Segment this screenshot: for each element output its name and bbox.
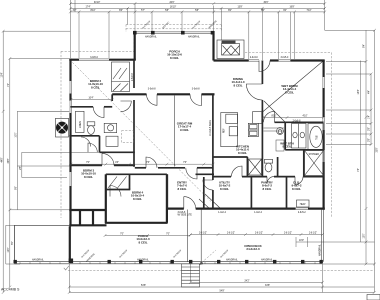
x212.9 door (203, 180, 213, 190)
pantry/clo top wall (213, 176, 231, 178)
svg-text:8 CEIL: 8 CEIL (238, 151, 247, 155)
wall y152 (100, 151, 135, 153)
fireplace (217, 40, 244, 59)
svg-text:8 CEIL: 8 CEIL (220, 187, 229, 191)
master bedroom ceiling diagonal (263, 62, 323, 113)
clo door (295, 177, 303, 185)
svg-text:16'10": 16'10" (170, 7, 177, 9)
right side dims (296, 29, 376, 293)
svg-text:8 CEIL: 8 CEIL (138, 240, 147, 244)
svg-text:8 CEIL: 8 CEIL (292, 187, 301, 191)
svg-text:10-0x6-8 SLDG: 10-0x6-8 SLDG (210, 120, 212, 136)
svg-text:7'0": 7'0" (166, 233, 170, 235)
kitchen west wall (212, 94, 214, 180)
svg-text:3'0": 3'0" (283, 10, 287, 12)
svg-text:8 CEIL: 8 CEIL (177, 187, 186, 191)
svg-text:8'0": 8'0" (12, 241, 14, 245)
wic shelves (264, 128, 285, 151)
svg-text:16'8": 16'8" (289, 7, 294, 9)
svg-text:ACC4MB S: ACC4MB S (1, 288, 20, 292)
bottom-right small box (367, 295, 380, 300)
stairs (182, 264, 200, 287)
top dim row 2 (69, 7, 326, 60)
walkway lines below entry (187, 210, 201, 262)
svg-text:2-6x5-2: 2-6x5-2 (298, 212, 307, 214)
svg-text:14'4": 14'4" (358, 89, 360, 94)
master doors (264, 111, 275, 122)
svg-text:9 CEIL: 9 CEIL (180, 128, 189, 132)
top wall B (214, 59, 249, 61)
svg-text:20'0": 20'0" (169, 2, 174, 4)
svg-text:10'0": 10'0" (15, 132, 17, 137)
svg-text:5'8": 5'8" (165, 10, 169, 12)
bdrm3 window dim (40, 110, 69, 112)
svg-text:HANDRAIL: HANDRAIL (319, 244, 322, 256)
svg-text:34'8": 34'8" (8, 158, 10, 163)
svg-text:1'4": 1'4" (368, 115, 370, 119)
svg-text:34'10": 34'10" (94, 2, 101, 4)
svg-text:7'6": 7'6" (146, 162, 150, 164)
bdrm3 top wall (69, 164, 102, 166)
big diagonal roof valley dashed (72, 62, 211, 201)
svg-text:REF: REF (223, 128, 225, 133)
bath2 toilet (87, 122, 95, 135)
svg-text:8'0": 8'0" (228, 10, 232, 12)
svg-text:3-0x6-8: 3-0x6-8 (192, 88, 201, 90)
master bath cabinet (292, 124, 307, 149)
top dim row 1 ticks (69, 2, 326, 5)
svg-text:54'8": 54'8" (141, 285, 146, 287)
svg-text:8 CEIL: 8 CEIL (84, 175, 93, 179)
bath2 doors (93, 107, 104, 118)
svg-text:3-0x5-0: 3-0x5-0 (90, 57, 99, 59)
svg-text:8 CEIL: 8 CEIL (285, 90, 294, 94)
hall door arcs on y167.8 (146, 157, 157, 168)
svg-text:2-8 1/2": 2-8 1/2" (309, 232, 317, 234)
svg-text:1-4x2-4: 1-4x2-4 (254, 212, 263, 214)
bdrm3 bottom / wing (69, 209, 106, 211)
right wall (323, 61, 325, 78)
attic access dashed (122, 131, 134, 143)
deck handrail bottom double line (15, 209, 324, 264)
svg-text:8'10": 8'10" (90, 10, 95, 12)
svg-text:2-6x6-8: 2-6x6-8 (293, 120, 302, 122)
check mark (64, 266, 69, 270)
svg-text:10'0": 10'0" (299, 240, 304, 242)
svg-text:HANDRAIL: HANDRAIL (261, 259, 273, 262)
svg-text:7'6": 7'6" (183, 162, 187, 164)
great room doors (arcs) (147, 94, 202, 105)
bottom dims (68, 264, 376, 294)
svg-text:2-8 1/2": 2-8 1/2" (227, 232, 235, 234)
dining door arc (259, 61, 270, 72)
svg-text:12'0": 12'0" (363, 233, 365, 238)
bdrm4 top (106, 173, 167, 175)
svg-text:2'8": 2'8" (368, 127, 370, 131)
svg-text:2-8x6-8: 2-8x6-8 (132, 72, 134, 81)
left wall segments (69, 59, 71, 81)
svg-text:7'2": 7'2" (8, 83, 10, 87)
deck posts (14, 259, 323, 264)
svg-text:44'8": 44'8" (1, 157, 3, 162)
entry walls (166, 174, 168, 208)
svg-text:4'10": 4'10" (302, 116, 307, 118)
svg-text:5'7": 5'7" (141, 10, 145, 12)
svg-text:SHOWER: SHOWER (309, 154, 320, 156)
svg-text:TUB: TUB (317, 135, 319, 140)
powder room: wd + toilet (249, 159, 273, 175)
handrail labels (32, 259, 273, 262)
hall south wall (135, 167, 146, 169)
hall west thin line (174, 96, 176, 167)
kitchen counters (221, 112, 262, 147)
svg-text:8'0": 8'0" (261, 10, 265, 12)
svg-text:2-8 1/2": 2-8 1/2" (284, 232, 292, 234)
svg-text:2-0x3-0: 2-0x3-0 (250, 57, 259, 59)
bath2 north wall (71, 106, 94, 108)
svg-text:3'2": 3'2" (73, 10, 77, 12)
svg-text:3-0x6-8: 3-0x6-8 (148, 88, 157, 90)
svg-text:10'4": 10'4" (88, 98, 93, 100)
porch dim row (104, 234, 192, 237)
svg-text:8 CEIL: 8 CEIL (91, 85, 100, 89)
dashed line under deck (68, 269, 374, 271)
svg-text:HEAT: HEAT (300, 203, 307, 206)
linen closet (76, 111, 85, 132)
svg-text:HANDRAIL: HANDRAIL (226, 259, 238, 262)
svg-text:1-4x2-4: 1-4x2-4 (218, 212, 227, 214)
svg-text:HANDRAIL: HANDRAIL (145, 35, 157, 38)
stair direction dashed arrow (199, 250, 216, 265)
svg-text:HANDRAIL: HANDRAIL (188, 35, 200, 38)
svg-text:30'0": 30'0" (263, 2, 268, 4)
handrail hatch ticks (20, 262, 315, 264)
svg-text:54'8": 54'8" (219, 291, 224, 293)
svg-text:2-8 1/2": 2-8 1/2" (255, 232, 263, 234)
great room front wall (112, 93, 146, 95)
svg-text:7'4": 7'4" (358, 168, 360, 172)
top dim row 1 (70, 0, 324, 58)
windows (thin double lines in wall gaps) (70, 59, 324, 209)
bath2 sink (104, 123, 116, 132)
interior dim rows (70, 163, 215, 166)
svg-text:8 CEIL: 8 CEIL (170, 56, 179, 60)
shower with X (305, 151, 324, 176)
svg-text:2'8": 2'8" (20, 166, 22, 170)
svg-text:32'8": 32'8" (377, 147, 379, 152)
bdrm3 door (102, 153, 114, 165)
master bath pedestal sink (277, 128, 284, 135)
svg-text:8'10": 8'10" (271, 116, 276, 118)
svg-text:8 CEIL: 8 CEIL (282, 145, 291, 149)
svg-text:7'0": 7'0" (120, 233, 124, 235)
svg-text:4'4": 4'4" (368, 90, 370, 94)
svg-text:34'8": 34'8" (265, 285, 270, 287)
svg-text:8 CEIL: 8 CEIL (233, 83, 242, 87)
svg-text:3-0x5-0: 3-0x5-0 (281, 57, 290, 59)
bottom wall (168, 208, 184, 210)
top dim row 3 (69, 11, 326, 60)
tub (308, 124, 324, 150)
svg-text:24-2x12-0: 24-2x12-0 (246, 247, 260, 251)
svg-text:8'6": 8'6" (15, 186, 17, 190)
svg-text:4'6": 4'6" (115, 162, 119, 164)
svg-text:8 CEIL: 8 CEIL (262, 187, 271, 191)
svg-text:8 CEIL: 8 CEIL (133, 197, 142, 201)
master south wall (275, 121, 324, 123)
svg-text:12'0": 12'0" (8, 247, 10, 252)
small cab below bath (106, 136, 118, 146)
fan/ac unit (56, 118, 69, 137)
porch left wall (134, 33, 136, 60)
svg-text:2-8 1/2": 2-8 1/2" (199, 232, 207, 234)
svg-text:17'4": 17'4" (85, 7, 90, 9)
bdrm4 closet (129, 174, 131, 189)
svg-text:7'10": 7'10" (306, 10, 311, 12)
deck north edge (left walkway) (15, 224, 70, 226)
deck dim row (189, 233, 324, 247)
pantry door (267, 177, 274, 184)
bdrm4 door arc (108, 177, 117, 189)
svg-text:24'2": 24'2" (244, 280, 249, 282)
svg-text:8'4": 8'4" (363, 44, 365, 48)
svg-text:2'8": 2'8" (368, 138, 370, 142)
svg-text:13'4": 13'4" (1, 72, 3, 77)
svg-text:8'6": 8'6" (119, 10, 123, 12)
bdrm2 door (121, 101, 132, 112)
svg-text:W/ SIDE LITE: W/ SIDE LITE (178, 215, 193, 217)
svg-text:LINEN: LINEN (80, 121, 82, 128)
svg-text:HANDRAIL: HANDRAIL (137, 259, 149, 262)
left side dims (2, 30, 100, 294)
top wall A (bdrm2) (69, 59, 79, 61)
heat box (297, 200, 310, 207)
svg-text:7'0": 7'0" (86, 162, 90, 164)
bdrm2 right wall (133, 60, 135, 88)
svg-text:5'8": 5'8" (195, 10, 199, 12)
bath2 south wall (69, 135, 99, 137)
bdrm2 closet (112, 62, 130, 92)
entry front door (184, 197, 196, 209)
svg-text:HANDRAIL: HANDRAIL (32, 259, 44, 262)
utility door (231, 166, 242, 177)
porch right wall (212, 31, 214, 61)
svg-text:13'8": 13'8" (237, 7, 242, 9)
kitchen/utility divide (213, 156, 248, 158)
